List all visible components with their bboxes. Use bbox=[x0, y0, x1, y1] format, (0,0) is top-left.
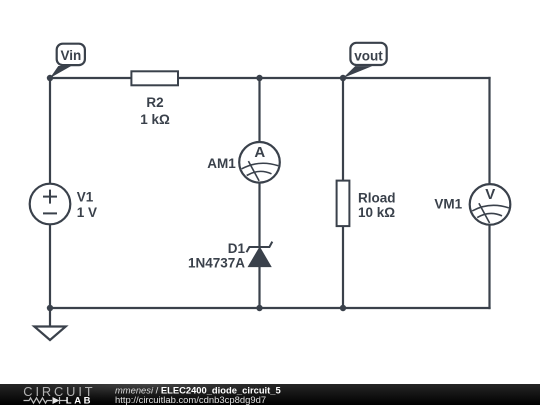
footer bar bbox=[0, 384, 540, 405]
svg-text:1N4737A: 1N4737A bbox=[188, 256, 245, 271]
svg-text:LAB: LAB bbox=[66, 396, 93, 405]
CircuitLab logo: resistor zigzag and diode glyph bbox=[24, 397, 67, 404]
svg-text:A: A bbox=[254, 144, 265, 161]
resistor Rload bbox=[337, 181, 350, 227]
wire vout branch: node vout down to Rload bbox=[342, 78, 344, 181]
wire left: node Vin down to V1 bbox=[49, 78, 51, 184]
svg-text:10 kΩ: 10 kΩ bbox=[358, 205, 395, 220]
svg-text:V: V bbox=[485, 186, 495, 203]
junction dot node vout bbox=[340, 75, 346, 81]
wire: ground stem bbox=[49, 308, 51, 326]
wire middle branch: junction B down to AM1 bbox=[258, 78, 260, 142]
wire middle branch: D1 anode to junction F bbox=[258, 266, 260, 309]
zener diode D1 bbox=[247, 242, 273, 267]
junction dot G (Rload branch, bottom) bbox=[340, 305, 346, 311]
junction dot ground node bbox=[47, 305, 53, 311]
wire bottom: junction G to junction F bbox=[260, 307, 344, 309]
ammeter AM1 bbox=[239, 142, 280, 183]
wire top: node vout to top-right corner bbox=[343, 77, 491, 79]
voltage source V1 bbox=[30, 184, 71, 225]
svg-text:V1: V1 bbox=[77, 190, 94, 205]
svg-text:AM1: AM1 bbox=[207, 156, 236, 171]
wire top: junction B to node vout bbox=[260, 77, 344, 79]
wire top: node Vin to R2 left bbox=[50, 77, 131, 79]
svg-text:http://circuitlab.com/cdnb3cp8: http://circuitlab.com/cdnb3cp8dg9d7 bbox=[115, 395, 266, 405]
svg-text:VM1: VM1 bbox=[434, 197, 462, 212]
voltmeter VM1 bbox=[470, 184, 511, 225]
resistor R2 bbox=[131, 71, 178, 85]
wire middle branch: AM1 to D1 cathode bbox=[258, 184, 260, 248]
junction dot B (AM1 branch, top) bbox=[256, 75, 262, 81]
node flag Vin bbox=[50, 44, 85, 78]
ground symbol bbox=[34, 327, 65, 341]
svg-text:R2: R2 bbox=[146, 95, 163, 110]
node flag vout bbox=[343, 43, 387, 78]
svg-text:D1: D1 bbox=[228, 241, 246, 256]
svg-text:vout: vout bbox=[354, 49, 383, 64]
wire left: V1 to ground node bbox=[49, 225, 51, 308]
junction dot node Vin bbox=[47, 75, 53, 81]
wire right: VM1 to bottom-right corner bbox=[488, 225, 490, 309]
junction dot F (AM1 branch, bottom) bbox=[256, 305, 262, 311]
svg-text:1 V: 1 V bbox=[77, 205, 97, 220]
wire top: R2 right to junction B bbox=[179, 77, 260, 79]
svg-text:Vin: Vin bbox=[61, 48, 82, 63]
wire bottom: junction F to ground node bbox=[50, 307, 260, 309]
wire bottom: bottom-right corner to junction G bbox=[343, 307, 491, 309]
svg-text:mmenesi / ELEC2400_diode_circu: mmenesi / ELEC2400_diode_circuit_5 bbox=[115, 384, 281, 395]
wire vout branch: Rload to junction G bbox=[342, 227, 344, 309]
wire right: top corner down to VM1 bbox=[488, 77, 490, 184]
svg-text:1 kΩ: 1 kΩ bbox=[140, 112, 170, 127]
svg-text:Rload: Rload bbox=[358, 191, 396, 206]
